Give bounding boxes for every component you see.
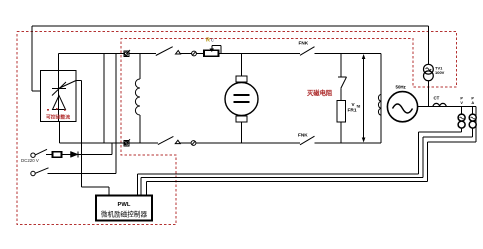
Rc shorting link drop <box>220 45 222 53</box>
FR1 branch top lead <box>340 54 342 78</box>
red dashed excitation-system boundary <box>17 32 457 225</box>
Rc shorting contact arrow <box>210 49 215 53</box>
wire bus1 to thyristor <box>58 54 60 89</box>
wire S2 line <box>48 172 116 174</box>
svg-text:100V: 100V <box>435 70 445 75</box>
reactor L1 bottom lead <box>139 115 141 143</box>
thyristor triangle <box>53 96 66 110</box>
svg-text:DC220 V: DC220 V <box>21 158 39 163</box>
thyristor rectifier box U1 <box>41 71 77 122</box>
instrument TA1 circle2 <box>458 121 465 128</box>
switch S2 blade <box>36 168 49 173</box>
wire into rectifier box <box>32 90 41 92</box>
svg-text:fd: fd <box>357 103 361 108</box>
svg-text:PWL: PWL <box>118 202 131 208</box>
instrument TA1 circle1 <box>458 114 465 121</box>
gate wire stub <box>76 80 82 82</box>
svg-text:CT: CT <box>434 96 440 101</box>
thermal relay FR1 <box>337 100 346 122</box>
reactor L1 top lead <box>139 54 141 80</box>
Vfd measurement arrow <box>363 56 365 141</box>
svg-text:可控硅整流: 可控硅整流 <box>46 114 70 121</box>
switch QS1 contact <box>176 51 181 55</box>
top field bus seg1 <box>59 53 156 55</box>
wire V1 bus link <box>103 54 105 144</box>
motor brush bottom <box>236 116 247 122</box>
bottom bus seg1b <box>180 142 191 144</box>
wire diode line <box>46 153 112 155</box>
terminal T4 <box>191 141 196 146</box>
svg-text:FNK: FNK <box>298 133 308 138</box>
svg-text:灭磁电阻: 灭磁电阻 <box>306 88 333 97</box>
motor bar2 <box>234 101 250 103</box>
Rc shorting link top <box>212 44 221 46</box>
switch QS1 blade <box>156 47 173 56</box>
switch S1 blade <box>36 149 48 155</box>
instrument TA2 circle2 <box>469 121 476 128</box>
PT primary lead <box>428 26 430 64</box>
voltage transformer PT circle2 <box>424 71 434 81</box>
instrument TA1 stub <box>461 107 463 114</box>
svg-text:A: A <box>471 101 474 105</box>
thyristor cathode bar <box>52 88 66 90</box>
svg-text:50Hz: 50Hz <box>396 84 407 89</box>
wire left drop <box>31 26 33 91</box>
bottom bus seg1 <box>60 142 158 144</box>
svg-text:R: R <box>206 38 210 44</box>
terminal T3 <box>192 51 197 56</box>
instrument TA2 stub <box>472 107 474 114</box>
reactor L1 winding <box>135 79 140 115</box>
FR1 bottom lead <box>340 122 342 143</box>
voltage transformer PT circle1 <box>424 64 434 74</box>
svg-text:P: P <box>471 97 474 101</box>
terminal T2 <box>124 140 129 146</box>
bottom bus seg2 <box>315 142 382 144</box>
switch FNK bottom blade <box>300 136 315 145</box>
generator sine wave <box>393 104 413 113</box>
terminal X2 <box>31 171 35 175</box>
motor M1 bottom lead <box>241 122 243 143</box>
transformer TB winding line <box>380 54 382 144</box>
bottom bus seg1c <box>196 142 300 144</box>
wire top supply loop <box>32 25 429 27</box>
terminal T1 <box>124 51 129 57</box>
svg-text:c: c <box>211 38 214 44</box>
wire diode line riser <box>111 143 113 154</box>
thyristor cross line <box>52 82 66 96</box>
top field bus seg3 <box>315 53 382 55</box>
rectifier negative lead <box>59 122 61 144</box>
sense wire 1 <box>461 128 463 132</box>
motor M1 armature <box>225 83 258 116</box>
PT secondary lead <box>428 81 430 107</box>
fuse FU1 <box>53 152 62 158</box>
thyristor vertical lead <box>58 89 60 122</box>
Rc shorting link riser <box>211 45 213 50</box>
transformer TB bumps <box>378 94 381 115</box>
thyristor gate line <box>59 81 77 89</box>
motor bar1 <box>234 94 250 96</box>
breaker contact above FR1 <box>338 76 347 78</box>
CT humps <box>433 103 446 106</box>
top field bus seg2 <box>180 53 300 55</box>
switch FNK top blade <box>300 47 315 56</box>
diode VD1 <box>71 151 79 157</box>
diode bar <box>77 151 79 157</box>
PLC excitation controller box <box>96 196 152 221</box>
gate wire vertical <box>81 81 83 188</box>
wire V2 to init-excitation return <box>115 54 117 174</box>
resistor Rc <box>204 50 219 56</box>
gate wire horizontal <box>82 186 109 188</box>
sense wire 3 <box>475 107 477 143</box>
terminal X1 <box>31 153 35 157</box>
gate wire into PLC <box>108 187 110 196</box>
svg-text:FR1: FR1 <box>348 108 357 114</box>
red label inside box <box>47 109 49 111</box>
svg-text:FNK: FNK <box>299 40 309 45</box>
switch QS1 lower blade <box>158 136 174 144</box>
generator G1 <box>387 92 417 122</box>
svg-text:微机励磁控制器: 微机励磁控制器 <box>101 210 148 219</box>
sense wire 2 <box>472 128 474 137</box>
instrument TA2 circle1 <box>469 114 476 121</box>
motor brush top <box>236 76 247 82</box>
motor M1 top lead <box>241 54 243 77</box>
generator output wire <box>418 106 477 108</box>
switch QS1 lower contact <box>175 140 180 143</box>
FR1 mid lead <box>340 88 342 100</box>
